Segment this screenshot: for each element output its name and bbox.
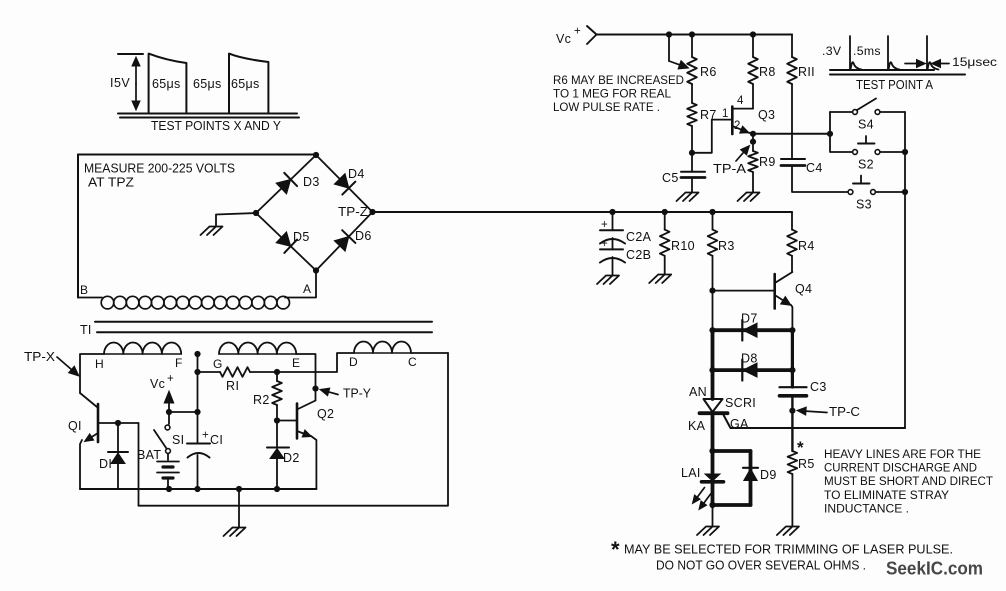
- svg-text:SI: SI: [172, 433, 184, 447]
- wire ground stub: [238, 489, 240, 527]
- node Q3 emitter: [750, 131, 756, 137]
- svg-text:INDUCTANCE .: INDUCTANCE .: [824, 501, 909, 515]
- svg-text:D7: D7: [741, 312, 758, 326]
- svg-text:S2: S2: [858, 158, 874, 172]
- wire D1 node to feedback rail: [138, 423, 140, 506]
- svg-text:R9: R9: [759, 155, 776, 169]
- wire A lead: [285, 271, 316, 298]
- wire R3 to D7 link: [712, 291, 714, 331]
- node R6 top: [689, 31, 695, 37]
- wire SCR gate: [723, 414, 905, 428]
- diode D7: [743, 323, 757, 337]
- svg-text:DI: DI: [99, 457, 112, 471]
- node TP-Y: [312, 386, 318, 392]
- wire H lead down: [80, 354, 104, 393]
- svg-text:BAT: BAT: [137, 448, 161, 462]
- wire F-G node down: [197, 354, 199, 412]
- svg-text:+: +: [574, 26, 581, 38]
- wire Q1 base to D1: [98, 422, 139, 424]
- svg-text:AN: AN: [689, 385, 707, 399]
- node C2 top: [609, 209, 615, 215]
- svg-text:F: F: [175, 356, 183, 370]
- node bridge top: [313, 152, 319, 158]
- node D2 to rail: [274, 486, 280, 492]
- svg-text:65μs: 65μs: [152, 77, 181, 91]
- svg-text:D8: D8: [741, 352, 758, 366]
- node LA1 bottom: [709, 502, 715, 508]
- wire C lead: [411, 352, 448, 354]
- waveform TPXY top reference tick: [118, 53, 143, 55]
- svg-text:TP-Y: TP-Y: [343, 387, 372, 401]
- arrow TP-A pointer: [736, 152, 744, 161]
- svg-text:15μsec: 15μsec: [952, 55, 997, 69]
- resistor R5: [788, 451, 798, 474]
- ground LA1: [697, 527, 719, 536]
- wire D9 column (heavy): [749, 451, 753, 505]
- svg-text:D2: D2: [283, 451, 300, 465]
- node R8 top: [750, 31, 756, 37]
- resistor R6 (variable): [687, 57, 697, 84]
- svg-text:S3: S3: [856, 198, 872, 212]
- wire right trigger bus: [904, 112, 906, 428]
- svg-text:TP-A: TP-A: [713, 162, 747, 176]
- capacitor C1: [197, 412, 199, 444]
- svg-text:R5: R5: [798, 457, 815, 471]
- waveform test point A baseline: [830, 70, 965, 75]
- svg-text:C5: C5: [662, 171, 679, 185]
- node switch bus: [827, 131, 833, 137]
- svg-text:H: H: [95, 357, 104, 371]
- svg-text:C2B: C2B: [626, 248, 651, 262]
- svg-text:Vc: Vc: [150, 377, 165, 391]
- svg-text:QI: QI: [68, 419, 82, 433]
- diode D8: [743, 363, 757, 377]
- resistor R2: [276, 372, 278, 381]
- arrow 15usec right: [941, 63, 950, 65]
- svg-text:.5ms: .5ms: [853, 44, 881, 58]
- svg-text:C2A: C2A: [626, 230, 652, 244]
- svg-text:2: 2: [734, 120, 740, 132]
- svg-text:+: +: [167, 373, 174, 385]
- transistor Q1 base bar: [97, 404, 100, 442]
- wire Q2 base: [277, 420, 297, 422]
- svg-text:+: +: [601, 238, 608, 250]
- resistor R9: [752, 134, 754, 151]
- node bridge bottom: [313, 267, 319, 273]
- wire bridge left node to ground: [216, 213, 256, 226]
- diode D2: [267, 447, 289, 449]
- wire bridge arm lower-left: [256, 213, 316, 271]
- wire Q4 collector: [776, 272, 793, 282]
- node TP-C: [789, 408, 795, 414]
- transformer winding D-C: [354, 342, 411, 354]
- wire switch left bus: [830, 112, 853, 152]
- resistor R11: [791, 35, 793, 58]
- arrow TP-C pointer: [806, 411, 827, 412]
- node Q4 base: [709, 288, 715, 294]
- switch S2 (pushbutton): [853, 150, 858, 155]
- svg-text:D: D: [349, 355, 358, 369]
- wire Vc node to C1 node: [169, 411, 198, 413]
- svg-text:R2: R2: [253, 393, 270, 407]
- svg-text:CURRENT DISCHARGE AND: CURRENT DISCHARGE AND: [824, 461, 977, 475]
- node R1 tap: [194, 369, 200, 375]
- ground bridge: [201, 227, 223, 236]
- svg-text:65μs: 65μs: [231, 77, 260, 91]
- node Q1 base / D1: [115, 420, 121, 426]
- thyristor SCR1: [704, 399, 723, 412]
- wire LA1/D9 branch top (heavy): [713, 449, 751, 453]
- node R2 top: [274, 369, 280, 375]
- svg-text:D3: D3: [303, 175, 320, 189]
- arrow TP-X pointer: [57, 357, 71, 369]
- wire anode column (heavy): [711, 330, 715, 399]
- node D7 left: [709, 327, 715, 333]
- switch S1: [165, 425, 170, 430]
- transistor Q2 base bar: [296, 404, 299, 439]
- ground R9: [738, 193, 760, 202]
- resistor R8: [752, 35, 754, 58]
- svg-text:C: C: [408, 355, 417, 369]
- svg-text:Q4: Q4: [795, 282, 812, 296]
- resistor R10: [664, 212, 666, 230]
- node Vc/S1: [166, 409, 172, 415]
- svg-text:Q3: Q3: [758, 108, 775, 122]
- svg-text:R10: R10: [671, 239, 695, 253]
- laser diode LA1 (heavy): [711, 451, 715, 474]
- svg-text:TP-X: TP-X: [24, 350, 56, 364]
- svg-text:I5V: I5V: [110, 76, 130, 90]
- node D8 left: [709, 367, 715, 373]
- arrow LA1 light emission 1: [697, 488, 704, 498]
- svg-text:LAI: LAI: [681, 466, 701, 480]
- wire LA1/D9 branch bottom (heavy): [713, 503, 751, 507]
- transformer T1 core lines: [95, 322, 432, 333]
- wire feedback rail (lower): [139, 353, 449, 506]
- waveform TPA spike 2: [888, 36, 900, 70]
- switch S3 (pushbutton): [848, 190, 853, 195]
- wire R1 feed: [198, 371, 221, 373]
- ground main rail: [224, 528, 246, 537]
- svg-text:+: +: [202, 430, 209, 442]
- waveform TPA spike 1: [850, 36, 862, 70]
- node Vc wire / C1 top: [194, 409, 200, 415]
- wire C2 to ground: [612, 257, 614, 275]
- ground C5: [677, 193, 699, 202]
- wire bridge arm upper-left: [256, 155, 316, 213]
- node R7/C5/Q3 base: [689, 150, 695, 156]
- arrow R6 wiper: [668, 35, 670, 62]
- node LA1 top: [709, 448, 715, 454]
- svg-text:RI: RI: [226, 379, 240, 393]
- svg-text:1: 1: [722, 108, 728, 120]
- node D8 right: [789, 367, 795, 373]
- svg-text:SCRI: SCRI: [725, 396, 756, 410]
- battery BAT: [167, 454, 169, 461]
- node bridge left: [253, 210, 259, 216]
- waveform TPXY 15V amplitude arrow: [135, 66, 137, 84]
- svg-text:RII: RII: [798, 65, 815, 79]
- svg-text:TEST POINTS X AND Y: TEST POINTS X AND Y: [151, 119, 282, 133]
- resistor R1: [220, 367, 250, 377]
- svg-text:AT TPZ: AT TPZ: [88, 176, 134, 190]
- node R6 wiper tap: [666, 31, 672, 37]
- svg-text:SeekIC.com: SeekIC.com: [886, 558, 983, 579]
- transistor Q4 bar: [773, 274, 776, 309]
- transformer T1 primary winding B-A: [101, 296, 289, 309]
- wire Q1 collector: [80, 393, 97, 407]
- node TP-Z: [369, 209, 375, 215]
- svg-text:G: G: [213, 357, 223, 371]
- wire R1 to D winding riser: [250, 353, 354, 372]
- diode D5: [276, 232, 291, 246]
- svg-text:MAY BE SELECTED FOR TRIMMING O: MAY BE SELECTED FOR TRIMMING OF LASER PU…: [624, 542, 953, 557]
- svg-text:R6: R6: [700, 65, 717, 79]
- node battery to rail: [166, 486, 172, 492]
- capacitor C2A: [612, 212, 614, 230]
- svg-text:A: A: [303, 282, 311, 296]
- svg-text:D6: D6: [355, 229, 372, 243]
- svg-text:TEST POINT A: TEST POINT A: [856, 78, 934, 92]
- wire Q4 base: [713, 290, 775, 292]
- ground C2: [597, 276, 619, 285]
- waveform TPXY pulse 1: [149, 54, 187, 114]
- diode D3: [276, 179, 291, 193]
- wire emitter node to switch bus: [753, 133, 830, 135]
- wire bridge arm lower-right: [316, 212, 373, 271]
- node F-G: [194, 351, 200, 357]
- wire Q4 emitter: [775, 295, 783, 300]
- svg-text:Q2: Q2: [317, 407, 334, 421]
- waveform TPXY baseline: [118, 114, 299, 118]
- svg-text:C4: C4: [806, 161, 823, 175]
- wire Q2 collector: [298, 401, 316, 410]
- switch S4: [853, 110, 858, 115]
- svg-text:.3V: .3V: [822, 44, 842, 58]
- svg-text:R6 MAY BE INCREASED: R6 MAY BE INCREASED: [553, 73, 684, 87]
- wire C3 column (heavy): [791, 330, 794, 387]
- arrow 15usec left: [905, 63, 917, 65]
- transformer winding H-F: [104, 343, 181, 355]
- wire TP-Z distribution: [373, 211, 793, 213]
- wire S4 right: [880, 111, 905, 113]
- svg-text:R8: R8: [759, 65, 776, 79]
- node S3 right: [902, 189, 908, 195]
- svg-text:D5: D5: [293, 230, 310, 244]
- wire Q1 emitter: [92, 433, 98, 437]
- wire Q3 pin 4: [732, 108, 753, 110]
- svg-text:*: *: [797, 438, 804, 457]
- svg-text:S4: S4: [858, 118, 874, 132]
- arrow TP-Y pointer: [329, 392, 338, 395]
- node TP-A: [750, 139, 756, 145]
- svg-text:CI: CI: [210, 433, 223, 447]
- waveform TPXY pulse 2: [229, 54, 268, 114]
- wire B lead: [78, 297, 102, 299]
- svg-text:C3: C3: [810, 380, 827, 394]
- wire Q3 pin 1 (base): [692, 120, 732, 153]
- svg-text:TO 1 MEG FOR REAL: TO 1 MEG FOR REAL: [553, 87, 671, 101]
- wire Q3 pin 2 (emitter): [732, 126, 741, 130]
- wire S2 right: [880, 151, 905, 153]
- capacitor C3: [780, 386, 807, 388]
- wire E lead down: [296, 354, 316, 401]
- svg-text:KA: KA: [688, 419, 706, 433]
- resistor R4: [791, 212, 793, 230]
- node R2/D2/Q2 base: [274, 417, 280, 423]
- svg-text:DO NOT GO OVER SEVERAL OHMS .: DO NOT GO OVER SEVERAL OHMS .: [656, 558, 866, 573]
- resistor R3: [712, 212, 714, 230]
- wire D7 link (heavy): [713, 328, 793, 332]
- svg-text:Vc: Vc: [556, 32, 571, 46]
- svg-text:B: B: [80, 283, 88, 297]
- node rail ground stub: [236, 486, 242, 492]
- diode D4: [334, 174, 348, 189]
- svg-text:E: E: [292, 356, 300, 370]
- capacitor C4: [781, 158, 805, 160]
- capacitor C5: [691, 153, 693, 172]
- svg-text:*: *: [611, 537, 620, 562]
- svg-text:MEASURE 200-225 VOLTS: MEASURE 200-225 VOLTS: [84, 162, 235, 176]
- node R10 top: [662, 209, 668, 215]
- resistor R7: [691, 84, 693, 103]
- power Vc+ arrow (left): [168, 403, 170, 412]
- wire Q2 emitter: [297, 431, 304, 433]
- svg-text:D9: D9: [760, 468, 777, 482]
- ground R10: [649, 275, 671, 284]
- wire box top edge: [78, 154, 316, 156]
- transformer winding G-E: [219, 343, 296, 355]
- node D7 right: [789, 327, 795, 333]
- svg-text:4: 4: [737, 95, 744, 107]
- ground R5: [777, 527, 799, 536]
- wire bottom rail: [80, 488, 316, 490]
- diode D9: [743, 467, 758, 469]
- svg-text:R3: R3: [718, 239, 735, 253]
- svg-text:D4: D4: [348, 167, 365, 181]
- node S2 right: [902, 149, 908, 155]
- waveform TPA spike 3: [927, 36, 939, 70]
- wire Vc node to S1: [168, 412, 170, 424]
- wire S3 right: [876, 191, 906, 193]
- svg-text:TO ELIMINATE STRAY: TO ELIMINATE STRAY: [824, 488, 949, 502]
- wire Vc+ top rail: [597, 34, 793, 36]
- diode D6: [334, 237, 348, 252]
- svg-text:LOW PULSE RATE .: LOW PULSE RATE .: [553, 100, 660, 114]
- wire Q1 emitter down: [80, 440, 82, 489]
- svg-text:TP-Z: TP-Z: [338, 205, 368, 219]
- svg-text:65μs: 65μs: [193, 77, 222, 91]
- wire D8 link (heavy): [713, 368, 793, 372]
- wire bridge arm upper-right: [316, 155, 373, 212]
- diode D1: [108, 451, 128, 453]
- arrow LA1 light emission 2: [704, 494, 711, 504]
- wire box left edge: [77, 155, 79, 298]
- transistor Q3 bar: [731, 107, 734, 135]
- node R3 top: [709, 209, 715, 215]
- capacitor C2B: [612, 238, 614, 249]
- svg-text:R4: R4: [798, 239, 815, 253]
- svg-text:HEAVY LINES ARE FOR THE: HEAVY LINES ARE FOR THE: [824, 447, 981, 461]
- wire LA1 to ground: [712, 505, 714, 526]
- svg-text:+: +: [601, 219, 608, 231]
- node C1 to rail: [194, 486, 200, 492]
- svg-text:MUST BE SHORT AND DIRECT: MUST BE SHORT AND DIRECT: [824, 474, 994, 488]
- svg-text:TI: TI: [80, 323, 92, 337]
- svg-text:TP-C: TP-C: [829, 405, 860, 419]
